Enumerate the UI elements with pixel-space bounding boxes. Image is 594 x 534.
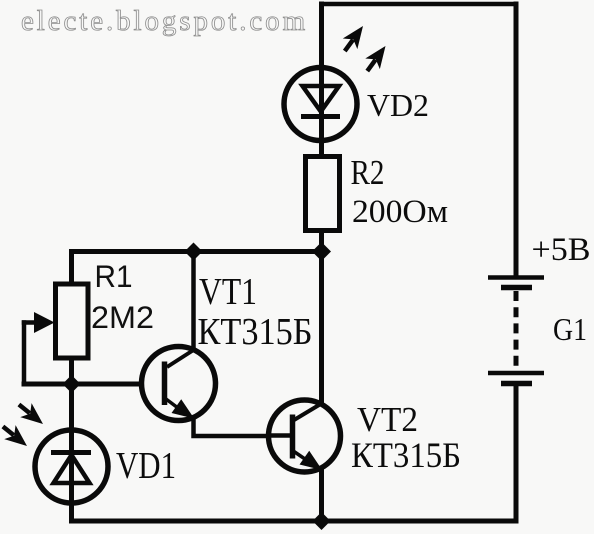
svg-text:G1: G1 bbox=[553, 311, 587, 347]
svg-text:КТ315Б: КТ315Б bbox=[198, 311, 313, 353]
svg-text:200Ом: 200Ом bbox=[352, 194, 448, 230]
svg-text:КТ315Б: КТ315Б bbox=[351, 435, 461, 475]
svg-text:VD1: VD1 bbox=[116, 445, 176, 487]
svg-text:2M2: 2M2 bbox=[91, 299, 154, 335]
svg-text:+5В: +5В bbox=[532, 232, 591, 268]
svg-text:R1: R1 bbox=[95, 258, 133, 294]
svg-text:R2: R2 bbox=[351, 153, 385, 192]
svg-text:VT2: VT2 bbox=[357, 400, 418, 439]
svg-text:VD2: VD2 bbox=[367, 87, 429, 123]
svg-text:electe.blogspot.com: electe.blogspot.com bbox=[21, 5, 308, 37]
svg-text:VT1: VT1 bbox=[199, 271, 257, 313]
